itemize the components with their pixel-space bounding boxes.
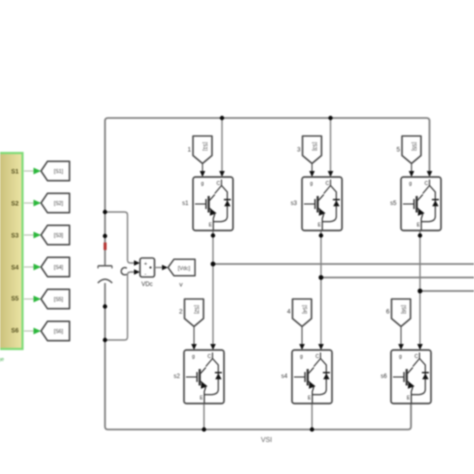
svg-text:VSI: VSI — [261, 437, 272, 444]
svg-text:s3: s3 — [291, 201, 298, 207]
svg-text:+: + — [144, 262, 147, 268]
svg-text:4: 4 — [287, 309, 291, 316]
svg-text:s4: s4 — [281, 374, 288, 380]
svg-text:S1: S1 — [11, 169, 19, 176]
svg-text:[S1]: [S1] — [54, 169, 64, 175]
svg-text:[S1]: [S1] — [202, 142, 208, 152]
svg-text:s1: s1 — [182, 201, 189, 207]
svg-text:5: 5 — [396, 147, 400, 154]
svg-text:v: v — [179, 282, 183, 289]
svg-text:[S6]: [S6] — [400, 305, 406, 315]
svg-text:s2: s2 — [174, 374, 181, 380]
svg-text:[S6]: [S6] — [54, 329, 64, 335]
svg-text:[S2]: [S2] — [193, 305, 199, 315]
svg-text:VDc: VDc — [141, 282, 152, 288]
svg-text:S6: S6 — [11, 328, 19, 335]
svg-text:6: 6 — [386, 309, 390, 316]
svg-text:-: - — [145, 272, 147, 278]
svg-text:s6: s6 — [381, 374, 388, 380]
svg-text:[S4]: [S4] — [54, 265, 64, 271]
svg-text:3: 3 — [297, 147, 301, 154]
svg-text:[S2]: [S2] — [54, 201, 64, 207]
svg-text:s5: s5 — [390, 201, 397, 207]
svg-text:S3: S3 — [11, 233, 19, 240]
svg-text:ge: ge — [0, 357, 4, 363]
svg-text:1: 1 — [187, 147, 191, 154]
svg-text:S5: S5 — [11, 296, 19, 303]
svg-text:[S5]: [S5] — [411, 142, 417, 152]
svg-text:[S5]: [S5] — [54, 297, 64, 303]
svg-text:[S4]: [S4] — [301, 305, 307, 315]
svg-text:S4: S4 — [11, 265, 19, 272]
svg-text:[S3]: [S3] — [54, 233, 64, 239]
svg-text:2: 2 — [179, 309, 183, 316]
svg-text:[Vdc]: [Vdc] — [178, 266, 191, 272]
svg-text:S2: S2 — [11, 201, 19, 208]
svg-text:[S3]: [S3] — [311, 142, 317, 152]
